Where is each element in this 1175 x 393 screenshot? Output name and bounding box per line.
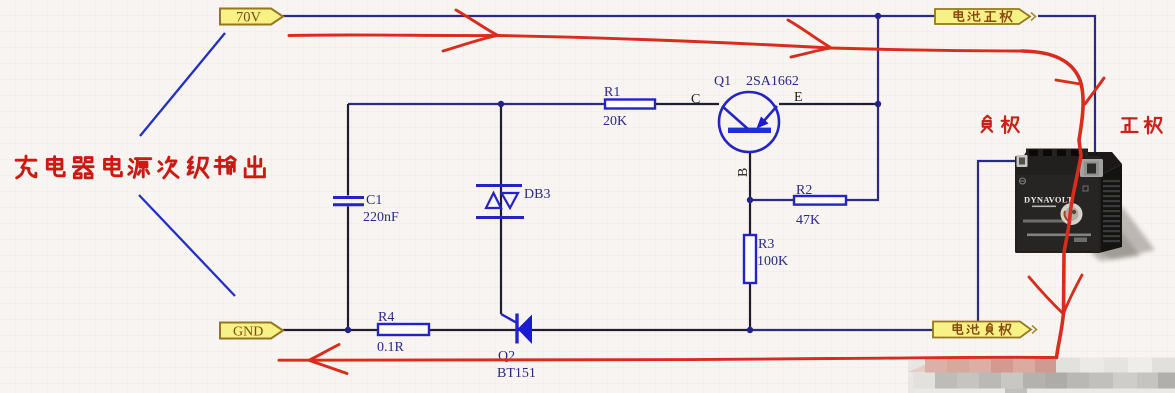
svg-text:100K: 100K [757,254,788,269]
svg-text:DYNAVOLT: DYNAVOLT [1024,195,1073,205]
svg-text:DB3: DB3 [524,187,550,202]
svg-text:R2: R2 [796,183,812,198]
svg-text:R4: R4 [378,310,394,325]
svg-text:C: C [691,92,700,107]
svg-text:R3: R3 [758,237,774,252]
svg-text:0.1R: 0.1R [377,340,405,355]
svg-text:R1: R1 [604,85,620,100]
svg-text:GND: GND [233,325,263,340]
svg-text:2SA1662: 2SA1662 [746,74,799,89]
svg-text:20K: 20K [603,114,627,129]
svg-text:220nF: 220nF [363,210,399,225]
svg-text:Q1: Q1 [714,74,731,89]
svg-text:47K: 47K [796,213,820,228]
svg-text:Q2: Q2 [498,349,515,364]
svg-text:BT151: BT151 [497,366,536,381]
svg-text:E: E [794,90,803,105]
svg-text:C1: C1 [366,193,382,208]
svg-text:70V: 70V [236,10,262,26]
svg-text:B: B [736,168,751,177]
